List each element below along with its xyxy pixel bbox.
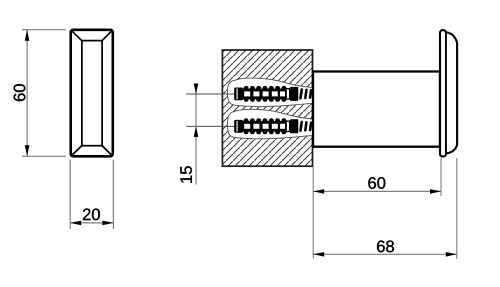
face plate rim bbox=[440, 30, 446, 156]
front view inner face rectangle bbox=[82, 41, 102, 146]
extension line body end bbox=[440, 158, 442, 196]
face dome profile (ogee) bbox=[447, 32, 457, 153]
dimension 15 dimension line bbox=[195, 84, 197, 185]
anchor 2 centerline bbox=[186, 125, 235, 127]
screw head 1 bbox=[234, 88, 243, 101]
wall section (hatched) bbox=[222, 50, 312, 166]
screw collar block 2 bbox=[290, 119, 298, 133]
screw head 2 bbox=[234, 120, 243, 133]
screw shank windows 1 bbox=[244, 91, 285, 96]
front view bevel diagonal top-left bbox=[72, 31, 83, 42]
front view bevel diagonal top-right bbox=[101, 31, 112, 42]
plug collar 2 bbox=[286, 121, 289, 131]
screw threads 2 bbox=[299, 120, 313, 132]
dimension 60 (left) arrow down bbox=[25, 145, 30, 156]
drill hole blob around anchor 1 bbox=[227, 78, 312, 107]
dimension 15 arrow up (bottom, outside) bbox=[194, 126, 199, 136]
dimension 20 arrow left bbox=[70, 221, 81, 226]
dimension 60 (left) extension line bottom bbox=[22, 155, 66, 157]
screw threads 1 bbox=[299, 88, 313, 100]
dimension 68 label bbox=[377, 241, 394, 253]
dimension 15 arrow down (top, outside) bbox=[194, 84, 199, 95]
dimension 60 (bottom) arrow right bbox=[430, 189, 441, 194]
dimension 60 (left) arrow up bbox=[25, 30, 30, 41]
screw anchor 1 bbox=[234, 86, 312, 102]
extension line face outer edge bbox=[456, 158, 458, 259]
dimension 20 label bbox=[83, 209, 100, 221]
extension line wall face (bottom) bbox=[312, 167, 314, 259]
dimension 60 (bottom) label bbox=[368, 177, 385, 189]
screw shank windows 2 bbox=[244, 124, 285, 129]
plug collar 1 bbox=[286, 89, 289, 99]
drill hole blob around anchor 2 bbox=[227, 109, 312, 139]
dimension 60 (bottom) dimension line bbox=[313, 190, 441, 192]
dimension 60 (left) dimension line bbox=[26, 30, 28, 157]
dimension 20 extension line left bbox=[69, 160, 71, 230]
anchor 1 centerline bbox=[186, 93, 235, 95]
screw anchor 2 bbox=[234, 118, 312, 134]
dimension 68 arrow right bbox=[446, 252, 457, 257]
front view bevel diagonal bottom-right bbox=[101, 145, 112, 156]
plug sleeve 1 with ribs bbox=[243, 89, 288, 100]
dimension 60 (left) extension line top bbox=[22, 29, 66, 31]
dimension 20 arrow right bbox=[102, 221, 113, 226]
dimension 68 dimension line bbox=[313, 253, 457, 255]
dimension 68 arrow left bbox=[313, 252, 324, 257]
dimension 60 (left) label bbox=[14, 84, 26, 101]
front view outer contour bbox=[71, 30, 113, 157]
dimension 20 dimension line bbox=[70, 222, 113, 224]
body cylinder (side view) bbox=[313, 72, 440, 147]
dimension 60 (bottom) arrow left bbox=[313, 189, 324, 194]
screw collar block 1 bbox=[290, 87, 298, 101]
front view bevel diagonal bottom-left bbox=[72, 145, 83, 156]
dimension 15 label bbox=[180, 166, 192, 183]
dimension 20 extension line right bbox=[112, 160, 114, 230]
plug sleeve 2 with ribs bbox=[243, 121, 288, 132]
